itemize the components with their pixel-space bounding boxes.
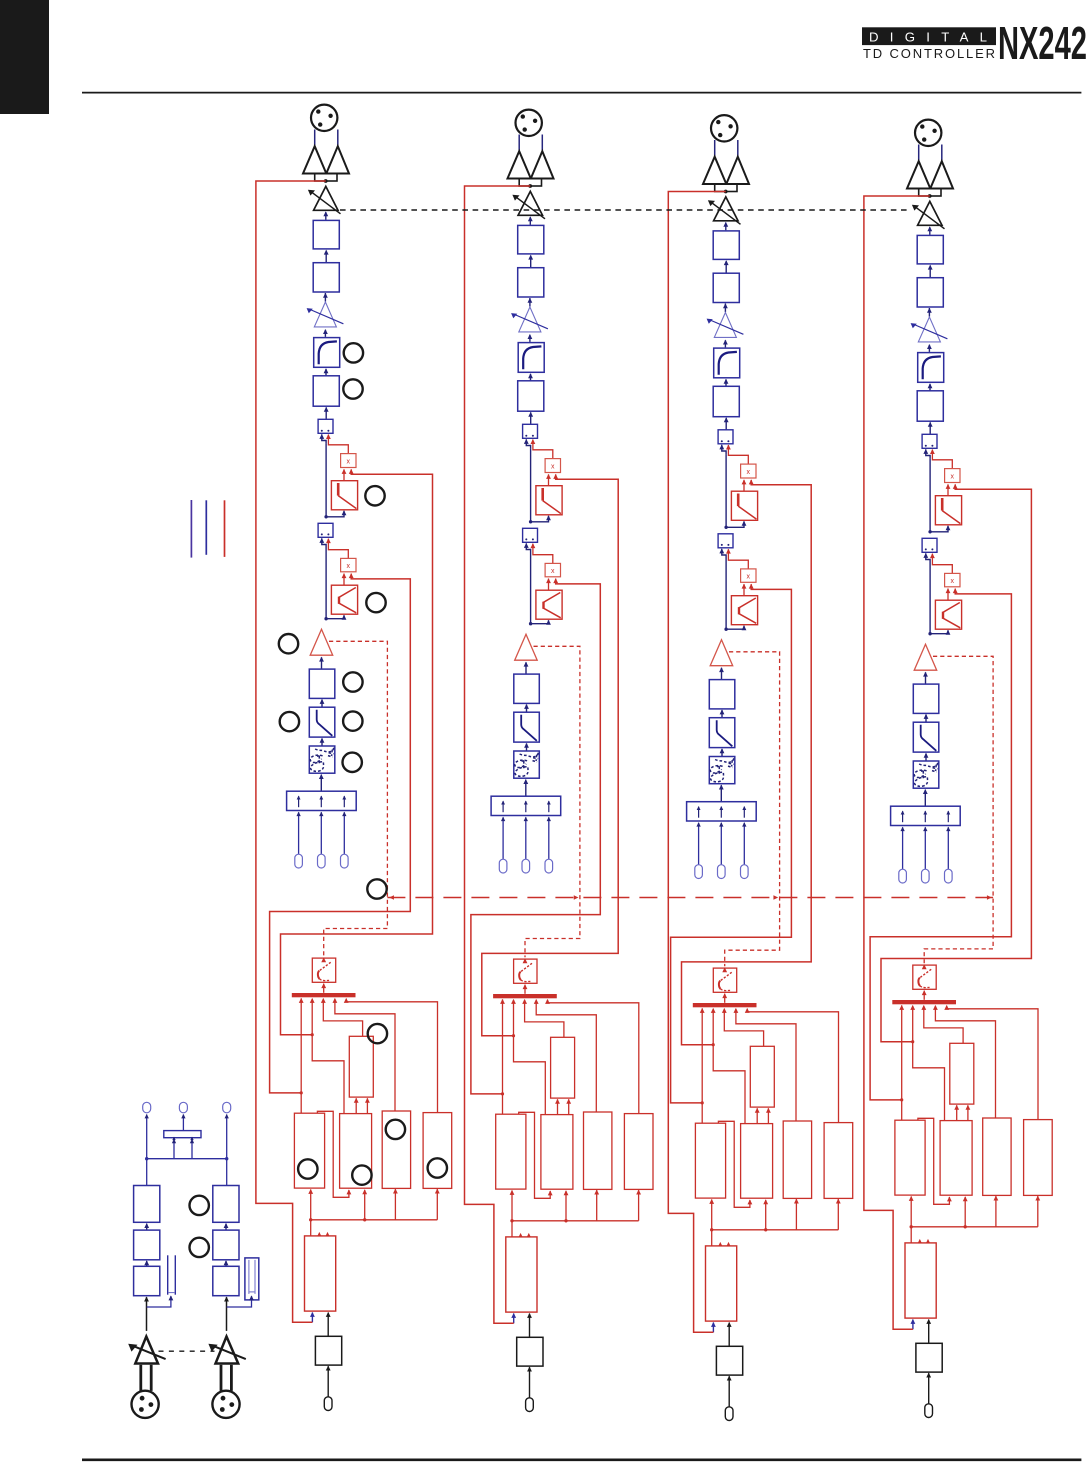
front panel LED indicator 7 (280, 712, 299, 731)
channel 4 wire output feedback loop (864, 196, 930, 1329)
channel 2 wire sidechain v2 (482, 475, 618, 1036)
channel 4 wire gain control dashed loop (922, 656, 993, 969)
channel 4 wire sidechain v1 (870, 589, 1011, 1100)
wire compressor link bus long-dash (387, 895, 993, 900)
channel 1 wire gain control dashed loop (321, 641, 387, 962)
input block A3 (134, 1186, 160, 1223)
channel 2 wire output feedback loop (465, 186, 531, 1323)
input monitor pill B (223, 1102, 231, 1113)
wire B1-B2 (224, 1260, 229, 1266)
front panel LED indicator 8 (343, 711, 362, 730)
front panel LED indicator 3 (365, 486, 384, 505)
input gain stage A (128, 1337, 165, 1364)
input block B1 (213, 1266, 239, 1295)
front panel LED indicator 5 (279, 634, 298, 653)
wire rail to B3 (226, 1159, 228, 1186)
front panel LED indicator 17 (190, 1238, 209, 1257)
front panel LED indicator 10 (367, 879, 386, 898)
channel 2 top chain (491, 110, 562, 873)
front panel LED indicator 1 (344, 343, 363, 362)
channel 1 wire output feedback loop (256, 181, 326, 1322)
svg-text:NX242: NX242 (998, 17, 1087, 69)
input gain stage B (208, 1337, 245, 1364)
channel 3 top chain (687, 115, 758, 878)
footer rule (82, 1458, 1081, 1461)
wire B2-B3 (224, 1223, 229, 1230)
channel 3 wire sidechain v2 (682, 480, 812, 1044)
channel 4 wire sidechain v2 (881, 485, 1031, 1042)
wire gain gang dashed link (340, 209, 910, 211)
front panel LED indicator 12 (298, 1159, 317, 1178)
wire A chain to pill (145, 1114, 149, 1159)
wire gain B to B1 (224, 1297, 229, 1331)
channel 3 compressor network (693, 968, 853, 1420)
input XLR connector A (132, 1391, 159, 1418)
legend line sample red (224, 500, 226, 557)
channel 1 wire sidechain v1 (270, 574, 411, 1093)
front panel LED indicator 6 (343, 672, 362, 691)
front panel LED indicator 11 (368, 1024, 387, 1043)
front panel LED indicator 14 (386, 1120, 405, 1139)
front panel LED indicator 13 (352, 1165, 371, 1184)
channel 3 wire gain control dashed loop (722, 652, 779, 973)
wire A to mixer (172, 1139, 176, 1159)
input block A1 (134, 1266, 160, 1295)
wire mixer to pill (181, 1114, 185, 1131)
wire XLR B pair (221, 1365, 231, 1391)
legend line sample blue (205, 500, 207, 555)
logo DIGITAL box (862, 27, 996, 45)
front panel LED indicator 4 (366, 593, 385, 612)
channel 1 compressor network (292, 958, 452, 1410)
wire XLR A pair (141, 1365, 151, 1391)
wire B chain to pill (225, 1114, 229, 1159)
wire gain A to A1 (144, 1297, 149, 1331)
input monitor pill A (143, 1102, 151, 1113)
channel 2 wire sidechain v1 (471, 579, 600, 1094)
input block A2 (134, 1230, 160, 1260)
input fader B (245, 1258, 259, 1300)
channel 1 top chain (287, 105, 358, 868)
input block B3 (213, 1186, 239, 1223)
channel 3 wire output feedback loop (668, 192, 725, 1333)
wire B to mixer (190, 1139, 194, 1159)
header rule (82, 92, 1081, 94)
wire A tap to fader A (147, 1295, 174, 1307)
front panel LED indicator 2 (343, 379, 362, 398)
wire rail to A3 (146, 1159, 148, 1186)
front panel LED indicator 9 (343, 753, 362, 772)
legend line sample purple (190, 500, 192, 558)
channel 2 wire gain control dashed loop (523, 646, 580, 963)
channel 2 compressor network (493, 959, 653, 1411)
wire A2-A3 (144, 1223, 149, 1230)
front panel LED indicator 15 (428, 1158, 447, 1177)
input gain link dashed (159, 1350, 215, 1352)
wire input cross rail (145, 1157, 228, 1160)
front panel LED indicator 16 (190, 1196, 209, 1215)
input XLR connector B (212, 1391, 239, 1418)
input fader A (168, 1255, 176, 1294)
channel 4 top chain (891, 120, 962, 883)
wire A1-A2 (144, 1260, 149, 1266)
corner black tab (0, 0, 49, 114)
input monitor pill A+B (179, 1102, 187, 1113)
input mixer box (164, 1131, 201, 1141)
channel 3 wire sidechain v1 (671, 585, 792, 1103)
channel 1 wire sidechain v2 (281, 470, 433, 1035)
input block B2 (213, 1230, 239, 1260)
channel 4 compressor network (892, 965, 1052, 1417)
wire B tap to fader B (227, 1295, 254, 1307)
